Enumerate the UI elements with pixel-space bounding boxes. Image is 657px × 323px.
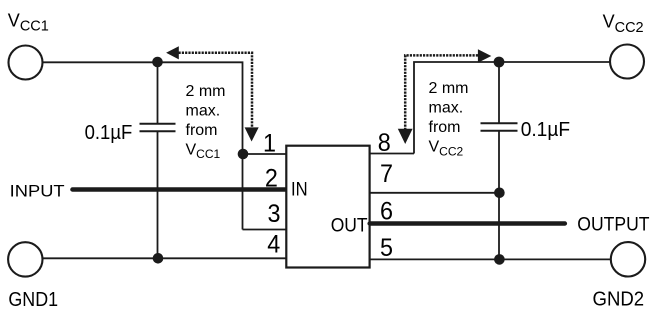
wire VCC1 terminal to left rail: [43, 61, 158, 63]
terminal VCC1: [9, 46, 43, 80]
svg-text:IN: IN: [291, 179, 308, 200]
svg-text:0.1µF: 0.1µF: [85, 121, 133, 144]
IC box U1: [286, 146, 369, 268]
wire GND1 to pin 4: [43, 257, 287, 259]
wire VCC1 rail to pin 1 (corner): [158, 62, 243, 154]
wire pin 8 stub: [370, 153, 414, 155]
terminal VCC2: [610, 45, 644, 79]
junction dot pin 1: [238, 149, 249, 160]
svg-text:VCC1: VCC1: [8, 10, 49, 34]
dotted arrow right (2mm max from VCC2): [398, 49, 492, 144]
wire VCC2 rail to pin 8 (corner): [414, 62, 499, 154]
wire pin 7 to right rail: [370, 192, 499, 194]
left rail lower segment: [157, 131, 159, 258]
svg-text:from: from: [429, 119, 461, 136]
svg-text:2 mm: 2 mm: [186, 83, 226, 100]
wire pin 3 stub: [243, 229, 287, 231]
junction dot pin 7 rail: [494, 188, 505, 199]
left rail upper segment: [157, 62, 159, 124]
wire OUTPUT (thick) from pin 6: [370, 221, 565, 225]
svg-text:4: 4: [267, 230, 280, 258]
svg-text:6: 6: [380, 197, 393, 225]
svg-text:VCC1: VCC1: [186, 141, 221, 161]
svg-text:5: 5: [380, 234, 393, 262]
svg-text:VCC2: VCC2: [429, 139, 464, 159]
junction dot VCC1 rail: [152, 57, 163, 68]
right rail lower segment: [498, 193, 500, 260]
svg-text:from: from: [186, 122, 218, 139]
svg-text:OUT: OUT: [331, 214, 368, 236]
svg-text:0.1µF: 0.1µF: [521, 118, 570, 141]
dotted arrow left (2mm max from VCC1): [166, 46, 259, 141]
wire VCC2 terminal to right rail: [499, 61, 610, 63]
junction dot GND1 rail: [153, 253, 164, 264]
svg-text:GND1: GND1: [8, 289, 58, 311]
svg-text:2 mm: 2 mm: [429, 80, 469, 97]
svg-text:OUTPUT: OUTPUT: [577, 215, 649, 236]
wire pin 1 to pin 3: [242, 154, 244, 230]
svg-text:max.: max.: [186, 103, 221, 120]
wire pin 1 stub: [243, 153, 287, 155]
svg-text:1: 1: [263, 129, 276, 157]
svg-text:2: 2: [265, 164, 278, 192]
svg-text:GND2: GND2: [593, 289, 645, 311]
wire pin 5 to GND2: [370, 258, 611, 260]
svg-text:3: 3: [268, 200, 281, 228]
note text right: 2 mm max. from VCC2: [429, 80, 469, 158]
wire INPUT (thick) to pin 2: [72, 187, 286, 191]
note text left: 2 mm max. from VCC1: [186, 83, 226, 161]
svg-text:max.: max.: [429, 99, 464, 116]
svg-text:INPUT: INPUT: [10, 182, 65, 200]
junction dot GND2 rail: [494, 254, 505, 265]
right rail upper segment: [498, 62, 500, 123]
capacitor C2 plates: [481, 123, 518, 131]
junction dot VCC2 rail: [494, 57, 505, 68]
terminal GND1: [8, 242, 42, 276]
svg-text:7: 7: [380, 160, 393, 188]
right rail middle segment: [498, 131, 500, 193]
svg-text:VCC2: VCC2: [603, 12, 644, 36]
capacitor C1 plates: [140, 124, 176, 131]
terminal GND2: [611, 242, 645, 276]
